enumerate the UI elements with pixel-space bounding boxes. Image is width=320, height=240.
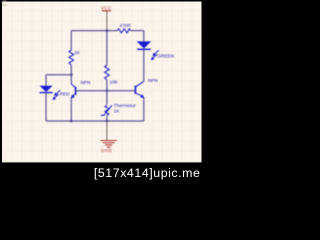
- svg-text:NPN: NPN: [148, 78, 158, 83]
- wire middle vertical below thermistor: [106, 116, 108, 121]
- wire GREEN-LED anode lead: [143, 31, 145, 42]
- svg-text:470R: 470R: [120, 23, 132, 28]
- wire Q2 emitter: [143, 97, 145, 121]
- watermark bar: [0, 162, 204, 182]
- node left branch junction: [70, 73, 73, 76]
- wire RED-LED cathode lead: [45, 93, 47, 121]
- node emitter-rail junction: [70, 120, 73, 123]
- LED D1 RED: [40, 86, 71, 100]
- ground GND: [100, 141, 117, 153]
- wire top rail right segment: [131, 30, 144, 32]
- thermistor RT1: [101, 103, 137, 116]
- svg-text:GND: GND: [101, 148, 113, 153]
- transistor Q2 NPN: [135, 78, 158, 98]
- node gnd-rail junction: [106, 120, 109, 123]
- node VCC-rail junction: [106, 29, 109, 32]
- power symbol VCC: [101, 6, 112, 31]
- wire top rail left segment: [71, 30, 117, 32]
- svg-text:GREEN: GREEN: [157, 54, 174, 59]
- wire bottom rail: [46, 120, 144, 122]
- resistor R 10K: [105, 65, 119, 85]
- svg-text:VCC: VCC: [101, 6, 112, 11]
- resistor 470R: [117, 23, 131, 33]
- wire middle vertical above 10K: [106, 31, 108, 65]
- transistor Q1 NPN: [71, 80, 91, 99]
- svg-text:[517x414]upic.me: [517x414]upic.me: [94, 166, 201, 180]
- wire Q1 emitter: [70, 97, 72, 121]
- sheet background: [0, 0, 204, 182]
- wire middle vertical below 10K: [106, 80, 108, 105]
- wire RED-LED anode lead: [45, 75, 47, 86]
- svg-text:1K: 1K: [74, 50, 81, 55]
- node base junction: [106, 89, 109, 92]
- wire GREEN-LED cathode to Q2 collector: [143, 50, 145, 81]
- svg-text:1K: 1K: [114, 109, 121, 114]
- resistor R 1K: [69, 50, 81, 65]
- wire GND stem: [106, 121, 108, 140]
- wire left vertical above 1K: [70, 31, 72, 50]
- LED D2 GREEN: [137, 41, 174, 60]
- wire base rail: [76, 90, 136, 92]
- svg-text:Thermistor: Thermistor: [114, 103, 137, 108]
- svg-text:NPN: NPN: [81, 80, 91, 85]
- corner artifact: [2, 1, 6, 6]
- wire left vertical below 1K: [70, 65, 72, 75]
- wire Q1 collector: [70, 75, 72, 84]
- svg-text:10K: 10K: [110, 80, 119, 85]
- wire RED-LED branch horizontal: [46, 74, 71, 76]
- svg-text:RED: RED: [60, 92, 71, 97]
